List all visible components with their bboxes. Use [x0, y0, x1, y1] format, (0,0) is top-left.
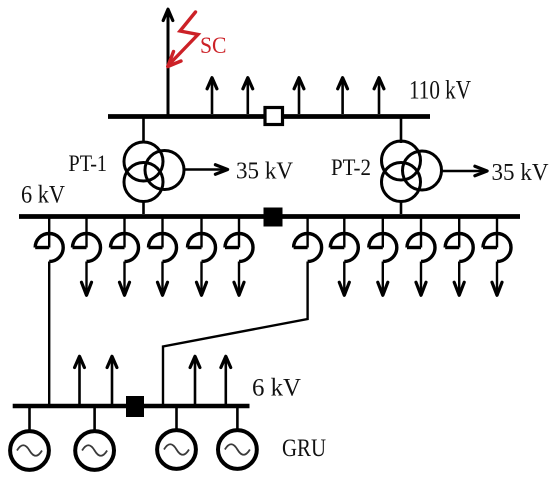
svg-text:6 kV: 6 kV [21, 182, 65, 209]
svg-text:35 kV: 35 kV [236, 159, 294, 185]
svg-text:SC: SC [200, 33, 227, 58]
svg-text:6 kV: 6 kV [252, 375, 301, 402]
svg-text:110 kV: 110 kV [409, 76, 471, 105]
svg-text:PT-2: PT-2 [331, 155, 371, 180]
svg-text:GRU: GRU [282, 435, 326, 462]
svg-text:35 kV: 35 kV [492, 160, 550, 186]
svg-text:PT-1: PT-1 [69, 151, 108, 176]
